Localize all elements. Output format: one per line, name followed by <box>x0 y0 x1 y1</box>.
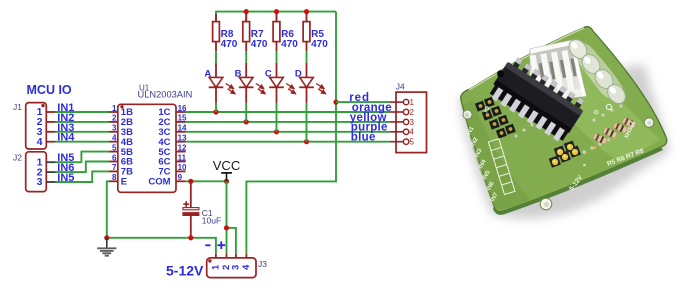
svg-text:IN4: IN4 <box>57 132 75 144</box>
junction LED C - purple <box>274 129 279 134</box>
board bottom side edge <box>493 147 663 215</box>
wire R6-LED C <box>276 51 278 63</box>
wire R8-LED A <box>215 51 217 63</box>
svg-text:VCC: VCC <box>213 158 240 173</box>
svg-text:E: E <box>121 177 127 188</box>
svg-text:1: 1 <box>112 104 117 113</box>
junction LED B - yellow <box>244 119 249 124</box>
wire rail drop R6 <box>276 12 278 22</box>
wire COM to VCC <box>186 180 227 182</box>
resistor R5 <box>303 14 328 51</box>
svg-text:B: B <box>235 68 242 79</box>
board dark bottom left <box>463 100 530 210</box>
svg-text:C: C <box>265 68 272 79</box>
junction LED D - blue <box>304 139 309 144</box>
junction rail-R5 <box>304 9 309 14</box>
svg-text:10uF: 10uF <box>202 216 221 226</box>
capacitor C1 <box>183 181 221 238</box>
board sheen top right <box>530 40 660 163</box>
svg-text:R7: R7 <box>251 29 264 40</box>
junction gnd <box>104 235 109 240</box>
svg-text:J4: J4 <box>396 81 405 91</box>
LED 3 <box>591 66 616 92</box>
svg-text:12: 12 <box>178 143 187 152</box>
svg-text:COM: COM <box>148 177 170 188</box>
label minus <box>205 244 210 246</box>
wire purple net <box>186 131 390 133</box>
resistor R7 <box>243 14 268 51</box>
svg-text:R8: R8 <box>221 29 234 40</box>
power VCC <box>213 158 240 181</box>
IC ULN2003 <box>484 53 588 144</box>
svg-text:470: 470 <box>251 39 268 50</box>
wire IN5b to pin7 <box>56 171 109 182</box>
label plus <box>217 241 225 249</box>
wire J3 pin3 jog <box>227 228 236 254</box>
U1 right pin names <box>148 107 170 187</box>
header pins left <box>475 97 516 139</box>
svg-text:15: 15 <box>178 114 187 123</box>
wire IN1 <box>56 111 109 113</box>
svg-text:3: 3 <box>410 118 415 127</box>
svg-text:3: 3 <box>37 176 43 188</box>
wire VCC vertical to J3 pin4 <box>246 12 336 254</box>
svg-text:8: 8 <box>112 173 117 182</box>
connector J4 <box>390 81 427 152</box>
wire IN2 <box>56 121 109 123</box>
svg-text:4: 4 <box>410 128 415 137</box>
svg-text:J1: J1 <box>13 102 22 112</box>
wire IN5 to pin5 <box>56 152 109 163</box>
wire red net <box>336 101 390 103</box>
junction C1-gnd rail <box>188 235 193 240</box>
resistor photo R7 <box>612 122 628 134</box>
wire IN6 to pin6 <box>56 162 109 173</box>
svg-text:7: 7 <box>112 163 117 172</box>
svg-text:4: 4 <box>112 134 117 143</box>
LED D <box>295 63 326 142</box>
svg-text:16: 16 <box>178 104 187 113</box>
svg-text:13: 13 <box>178 134 187 143</box>
svg-text:1: 1 <box>410 98 415 107</box>
svg-text:5: 5 <box>112 143 117 152</box>
silkscreen O mark <box>606 104 611 109</box>
LED 2 <box>578 51 603 77</box>
wire yellow net <box>186 121 390 123</box>
PCB board <box>461 27 667 212</box>
board shadow <box>459 64 670 219</box>
resistor photo R5 <box>592 133 608 145</box>
silkscreen IN labels <box>466 125 500 203</box>
svg-text:MCU IO: MCU IO <box>27 83 72 97</box>
U1 left pin numbers <box>112 104 117 182</box>
wire VCC to J3 pin2 <box>226 181 228 254</box>
wire blue net <box>186 141 390 143</box>
U1 left pin names <box>121 107 133 187</box>
wire IN3 <box>56 131 109 133</box>
board top edge highlight <box>469 28 584 90</box>
LED glow area <box>573 42 624 100</box>
white JST connector <box>528 40 586 103</box>
junction J3 pin2-3 <box>224 225 229 230</box>
IC U1 ULN2003AIN <box>118 83 192 192</box>
junction red row <box>333 100 338 105</box>
svg-text:2: 2 <box>112 114 117 123</box>
svg-text:1: 1 <box>210 264 221 270</box>
wire VCC top rail <box>216 12 336 22</box>
svg-text:A: A <box>204 68 211 79</box>
svg-text:IN5: IN5 <box>57 172 74 184</box>
svg-text:3: 3 <box>112 124 117 133</box>
ground <box>97 238 116 256</box>
junction COM-VCC <box>224 179 229 184</box>
junction rail-R6 <box>274 9 279 14</box>
mounting hole TL <box>463 110 472 119</box>
wire orange net <box>186 111 390 113</box>
LED 1 <box>565 36 590 62</box>
svg-text:470: 470 <box>221 39 238 50</box>
junction LED A - orange <box>213 109 218 114</box>
svg-text:2: 2 <box>410 108 415 117</box>
svg-text:5-12V: 5-12V <box>166 263 204 279</box>
LED B <box>235 63 266 122</box>
junction COM-C1 <box>188 179 193 184</box>
svg-text:J2: J2 <box>13 152 22 162</box>
wire rail drop R7 <box>245 12 247 22</box>
mounting hole BR <box>644 118 654 128</box>
svg-text:ULN2003AIN: ULN2003AIN <box>138 89 193 99</box>
svg-text:9: 9 <box>178 173 183 182</box>
svg-text:4: 4 <box>241 264 252 270</box>
wire R7-LED B <box>245 51 247 63</box>
silkscreen ladder <box>488 139 515 195</box>
LED C <box>265 63 296 132</box>
jumper gold pins <box>549 141 581 168</box>
U1 right pin numbers <box>178 104 187 182</box>
svg-text:5: 5 <box>410 138 415 147</box>
svg-text:470: 470 <box>281 39 298 50</box>
wire IN4 <box>56 141 109 143</box>
resistor R6 <box>273 14 298 51</box>
svg-text:R6: R6 <box>281 29 294 40</box>
wire R5-LED D <box>306 51 308 63</box>
svg-text:470: 470 <box>311 39 328 50</box>
connector J3 <box>207 254 268 278</box>
svg-text:blue: blue <box>351 132 376 144</box>
LED A <box>204 63 235 112</box>
junction rail-R7 <box>244 9 249 14</box>
svg-text:3: 3 <box>230 265 241 270</box>
U1 right pins <box>176 112 186 181</box>
connector J1 <box>13 102 56 149</box>
svg-text:14: 14 <box>178 124 187 133</box>
wire rail drop R5 <box>306 12 308 22</box>
svg-text:R5: R5 <box>311 29 324 40</box>
wire E to ground <box>107 181 110 238</box>
connector J2 <box>13 152 56 192</box>
resistor R8 <box>213 14 238 51</box>
solder pads rows <box>515 104 623 153</box>
LED 4 <box>604 81 629 107</box>
U1 left pins <box>109 112 118 181</box>
resistor lead gold dots <box>583 136 616 154</box>
svg-text:J3: J3 <box>258 259 267 269</box>
svg-text:11: 11 <box>178 153 187 162</box>
svg-text:6: 6 <box>112 153 117 162</box>
resistor photo R6 <box>602 127 618 139</box>
mounting hole BL <box>540 198 552 210</box>
svg-text:10: 10 <box>178 163 187 172</box>
wire ground rail <box>107 238 216 254</box>
svg-text:D: D <box>295 68 302 79</box>
resistor photo R8 <box>621 117 637 129</box>
svg-text:4: 4 <box>37 136 43 148</box>
